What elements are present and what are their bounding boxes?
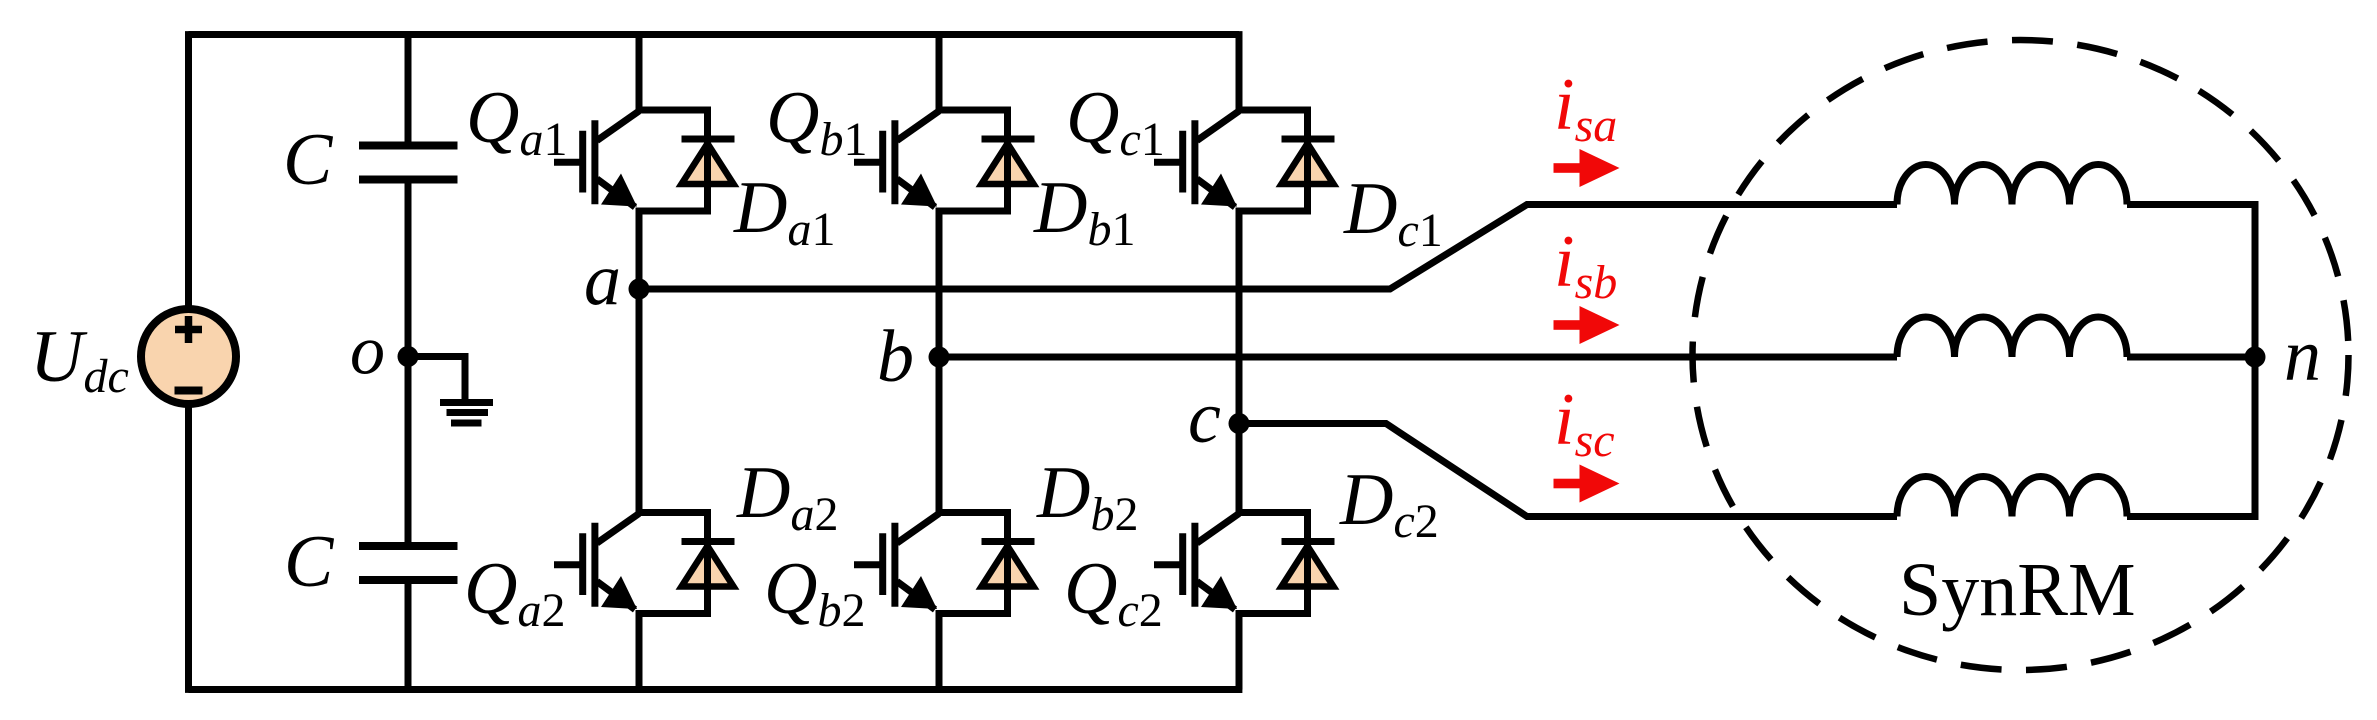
svg-text:b: b <box>877 316 914 398</box>
svg-text:Da2: Da2 <box>736 452 838 541</box>
ground <box>440 403 493 424</box>
wire left rail lower <box>185 404 192 693</box>
wire bottom DC bus <box>189 686 1243 693</box>
svg-text:Qc1: Qc1 <box>1066 77 1165 166</box>
svg-text:a: a <box>584 239 621 321</box>
transistor Qb1 <box>854 111 939 207</box>
svg-text:Udc: Udc <box>30 316 129 403</box>
svg-text:Qc2: Qc2 <box>1064 548 1163 637</box>
svg-text:isc: isc <box>1554 379 1615 467</box>
wire leg a middle <box>636 211 643 513</box>
current arrow isc <box>1554 465 1620 503</box>
transistor Qb2 <box>854 514 939 610</box>
svg-text:o: o <box>350 313 385 390</box>
wire capacitor rail upper <box>405 31 412 142</box>
capacitor C top <box>359 146 458 180</box>
wire top DC bus <box>189 31 1240 38</box>
wire leg b middle <box>936 211 943 513</box>
transistor Qc1 <box>1154 111 1239 207</box>
wire leg b lower <box>936 614 943 690</box>
wire phase a right <box>2127 205 2255 358</box>
wire ground stub <box>408 357 465 401</box>
wire left rail upper <box>185 31 192 309</box>
inductor phase b <box>1897 317 2127 357</box>
diode Da1 <box>636 110 735 211</box>
transistor Qa1 <box>554 111 639 207</box>
source plus sign <box>175 316 202 343</box>
node b dot <box>929 347 950 368</box>
wire phase a left <box>639 205 1897 290</box>
svg-text:n: n <box>2284 315 2321 397</box>
svg-text:isa: isa <box>1554 64 1617 152</box>
wire phase c right <box>2127 357 2255 517</box>
transistor Qc2 <box>1154 514 1239 610</box>
svg-text:Qa1: Qa1 <box>466 77 567 166</box>
node n dot <box>2245 347 2266 368</box>
diode Dc2 <box>1236 513 1335 614</box>
svg-text:Da1: Da1 <box>733 167 835 256</box>
current arrow isa <box>1554 149 1620 187</box>
wire capacitor rail middle <box>405 184 412 543</box>
svg-text:SynRM: SynRM <box>1899 548 2136 632</box>
wire leg c middle <box>1236 211 1243 513</box>
svg-text:isb: isb <box>1554 221 1617 309</box>
inductor phase c <box>1897 477 2127 517</box>
wire leg c upper <box>1236 31 1243 110</box>
transistor Qa2 <box>554 514 639 610</box>
svg-text:C: C <box>283 119 334 201</box>
svg-text:Qa2: Qa2 <box>464 548 565 637</box>
node c dot <box>1229 413 1250 434</box>
wire phase b right <box>2127 354 2255 361</box>
capacitor C bottom <box>359 546 458 580</box>
svg-text:Db1: Db1 <box>1033 167 1135 256</box>
svg-text:c: c <box>1188 377 1221 459</box>
source minus sign <box>175 387 203 395</box>
inductor phase a <box>1897 165 2127 205</box>
svg-text:Dc1: Dc1 <box>1343 168 1443 257</box>
svg-text:Db2: Db2 <box>1036 452 1138 541</box>
diode Dc1 <box>1236 110 1335 211</box>
wire phase c left <box>1239 424 1897 517</box>
wire leg a lower <box>636 614 643 690</box>
svg-text:Qb1: Qb1 <box>766 77 867 166</box>
svg-text:Dc2: Dc2 <box>1339 459 1439 548</box>
SynRM machine boundary dashed circle <box>1693 40 2349 670</box>
wire leg c lower <box>1236 614 1243 690</box>
svg-text:Qb2: Qb2 <box>764 548 865 637</box>
source Udc <box>141 309 236 404</box>
wire leg b upper <box>936 31 943 110</box>
wire phase b left <box>939 354 1897 361</box>
svg-text:C: C <box>284 521 335 603</box>
wire leg a upper <box>636 31 643 110</box>
diode Db1 <box>936 110 1035 211</box>
node o dot <box>398 346 419 367</box>
wire capacitor rail lower <box>405 584 412 693</box>
current arrow isb <box>1554 306 1620 344</box>
node a dot <box>629 279 650 300</box>
diode Db2 <box>936 513 1035 614</box>
diode Da2 <box>636 513 735 614</box>
